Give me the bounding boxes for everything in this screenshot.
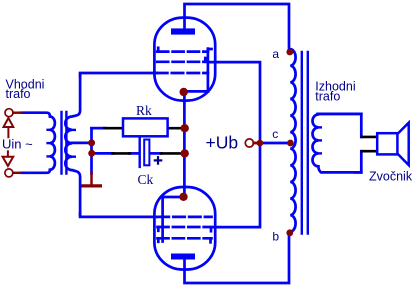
svg-text:b: b (272, 230, 279, 244)
V2 internal rail (161, 197, 164, 242)
+Ub terminal (245, 139, 253, 147)
node cathode V1 (180, 88, 188, 96)
input terminal bottom stub (13, 172, 20, 174)
tube V1 (top) (154, 18, 215, 101)
wire screen rail right (208, 62, 260, 227)
V1 internal rail (207, 49, 210, 92)
capacitor Ck plate right (144, 140, 149, 166)
V1 rail top stub (208, 48, 212, 51)
svg-text:c: c (272, 127, 278, 141)
wire Ck right blue part (151, 152, 162, 155)
V2 g2 hook left (157, 227, 160, 231)
wire bias node vertical (92, 128, 105, 173)
node cathode V2 (179, 193, 187, 201)
node a (286, 49, 293, 56)
input terminal bottom (5, 169, 13, 177)
node b (286, 229, 293, 236)
wire speaker black top (362, 136, 377, 139)
V2 grid g1 dashes (158, 216, 212, 219)
svg-text:Rk: Rk (136, 103, 152, 118)
wire top anode rail (185, 4, 290, 51)
input primary cusp stubs (48, 130, 50, 157)
V2 g3 hook right (209, 239, 212, 243)
V2 g3 hook left (157, 238, 160, 242)
svg-text:Zvočnik: Zvočnik (369, 169, 413, 183)
output transformer secondary coil (313, 114, 362, 172)
input transformer primary coil (21, 113, 55, 173)
ground (83, 173, 101, 186)
wire Ck right black (161, 152, 181, 155)
wire cathode rail (183, 92, 186, 197)
output transformer primary coil (290, 49, 295, 232)
node Ub rail (257, 140, 264, 147)
tube V2 (bottom) (154, 187, 215, 270)
input terminal top stub (13, 111, 21, 113)
wire Ck left black (113, 152, 130, 155)
svg-text:Uin ~: Uin ~ (2, 136, 33, 151)
wire Ck row left (92, 152, 114, 155)
svg-text:Ck: Ck (138, 172, 154, 187)
V2 grid g2 (158, 226, 212, 229)
Ck plus sign (155, 157, 161, 163)
arrow up (4, 118, 14, 137)
wire center tap (72, 142, 91, 145)
wire +Ub row (260, 142, 290, 145)
V2 cathode line (163, 196, 184, 199)
V1 envelope (154, 18, 215, 101)
+Ub terminal stub (254, 142, 258, 145)
wire grid1 bottom tube (80, 213, 156, 217)
node Ck row left (88, 150, 95, 157)
V1 grid g2 (157, 60, 208, 63)
arrow down (3, 151, 14, 166)
V2 grid g3 (158, 237, 212, 240)
wire bottom anode rail (185, 233, 290, 283)
V1 anode (171, 28, 195, 34)
svg-text:trafo: trafo (315, 89, 340, 103)
V2 envelope (154, 187, 215, 270)
svg-text:a: a (272, 47, 279, 61)
resistor Rk (123, 118, 168, 136)
input transformer secondary coil (65, 74, 80, 215)
V2 anode (171, 254, 195, 260)
wire Rk left black (105, 127, 123, 130)
V1 cathode line (184, 90, 208, 93)
input transformer core (60, 112, 62, 174)
input terminal top (5, 109, 13, 117)
capacitor Ck plate left (138, 138, 140, 167)
wire grid1 top tube (80, 73, 157, 76)
V1 grid g3 (157, 50, 208, 53)
output transformer core (301, 52, 303, 234)
V1 g3 hook (157, 48, 160, 52)
node Rk right (181, 124, 189, 132)
input secondary cusp stubs (72, 130, 75, 157)
V1 g2 hook (204, 58, 207, 62)
node Ck right (181, 149, 189, 157)
wire speaker black bottom (362, 150, 377, 153)
output secondary cusp stubs (318, 127, 320, 153)
V2 g2 hook right (210, 228, 213, 232)
wire speaker corner bottom (355, 151, 361, 172)
wire Rk right black (169, 127, 182, 130)
V1 grid g1 dashes (156, 72, 208, 75)
node tap left (88, 139, 95, 146)
wire speaker corner top (318, 114, 362, 137)
wire Ck left blue part (129, 152, 139, 155)
speaker (377, 123, 409, 165)
svg-text:trafo: trafo (6, 87, 31, 101)
wire Rk left blue part (92, 127, 106, 130)
node c (287, 140, 294, 147)
svg-text:+Ub: +Ub (206, 132, 239, 152)
